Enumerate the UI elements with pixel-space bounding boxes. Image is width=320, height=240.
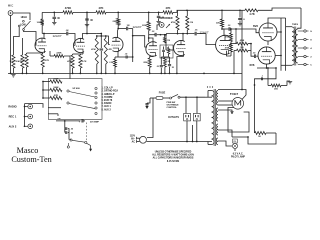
svg-text:4.7K: 4.7K (82, 60, 87, 63)
label MIC input (8, 4, 14, 8)
ground arrow line cap (145, 106, 148, 109)
label pilot lamp (231, 153, 245, 159)
wire V1A plate to coupling node (42, 33, 66, 39)
wire volume wiper feed (69, 73, 71, 78)
label R17 (171, 21, 176, 24)
tube V1A 12AX7 section (35, 38, 46, 52)
wire V2A cathode to R9 R10 (73, 52, 83, 55)
resistor R19a cathode V3A (148, 56, 153, 74)
label R7 (249, 12, 255, 16)
control panel box (48, 79, 102, 120)
wire cathodes join (257, 41, 276, 69)
label R4 (65, 6, 71, 10)
capacitor C2a filter 40 (53, 12, 57, 22)
svg-text:1M: 1M (190, 22, 193, 24)
capacitor C10 .02 coupling (154, 33, 161, 37)
wire triple to V2B grid (106, 36, 110, 45)
resistor R8 470K grid (50, 55, 64, 58)
wire interstage top bus (96, 33, 107, 37)
svg-text:220K: 220K (56, 52, 62, 54)
svg-text:6.3 V A.C.: 6.3 V A.C. (233, 153, 244, 156)
label R21a (225, 36, 230, 39)
wire rail into R7 (240, 9, 245, 11)
tube V2B 12AX7 (112, 37, 123, 51)
wire mic jack down (10, 15, 12, 73)
wire HV CT ground (218, 110, 233, 114)
wire V4 grid (201, 34, 216, 45)
svg-text:Fil.: Fil. (234, 141, 237, 143)
resistor R21a grid leak upper (230, 28, 233, 43)
svg-text:AC: AC (132, 140, 136, 143)
wire R9 R10 to gnd (72, 68, 82, 74)
label HIGH (21, 16, 27, 19)
wire V3B cathode (161, 56, 183, 74)
svg-text:60~: 60~ (131, 138, 136, 140)
label R3a (37, 22, 42, 24)
svg-text:100K: 100K (53, 79, 59, 81)
capacitor C16 line (145, 103, 148, 107)
resistor R11b interstage (104, 36, 107, 73)
svg-text:220K: 220K (143, 62, 148, 64)
svg-text:2.2K: 2.2K (109, 62, 114, 64)
B+ rail segment E to OT (258, 8, 301, 10)
transformer T1 winding4 (216, 138, 218, 145)
svg-text:470K: 470K (171, 21, 176, 24)
wire V1A cathode (43, 52, 45, 53)
svg-text:PILOT LAMP: PILOT LAMP (231, 156, 245, 159)
svg-text:2. ORTHO-RCA: 2. ORTHO-RCA (102, 90, 119, 93)
tube V2A 12AX7 second stage (73, 38, 84, 52)
wire B+ to OT (298, 8, 301, 29)
wire cathode to bypass top (27, 53, 43, 54)
wire coupling down to volume (132, 29, 134, 63)
svg-text:2.2K: 2.2K (166, 61, 171, 63)
wire switch to grid (24, 31, 37, 46)
wire pilot down (234, 149, 236, 151)
transformer T1 heater dots (207, 86, 213, 87)
speaker field loop (248, 133, 276, 144)
wire tail to gnd (233, 51, 235, 75)
svg-text:.1: .1 (261, 76, 263, 78)
capacitor C18 tone (162, 47, 165, 57)
tube V6 6V6 lower (258, 47, 275, 64)
transformer T1 heater winding (217, 124, 218, 135)
plate bus vertical (280, 18, 282, 71)
record arrow (166, 24, 170, 28)
wire to tone pots (161, 34, 167, 36)
switch S2 input selector (67, 87, 97, 114)
svg-text:180K: 180K (53, 87, 59, 89)
label C2a (57, 17, 60, 20)
label R21b (225, 47, 230, 50)
ground rail bottom left (8, 72, 107, 74)
capacitor C8 .02 (65, 129, 73, 135)
wire R8 to volume pot (64, 56, 70, 73)
label C10 (152, 31, 156, 33)
label C15 (253, 53, 257, 55)
ground symbol left (11, 75, 15, 77)
label 6V6 lower (250, 63, 255, 67)
B+ rail segment D (173, 9, 241, 12)
resistor R18 1MEG (186, 10, 189, 33)
wire V3B grid (166, 35, 174, 50)
svg-text:LOW: LOW (20, 23, 26, 26)
wire tone caps to S3 (68, 129, 69, 140)
svg-text:470K: 470K (91, 48, 96, 51)
svg-text:G: G (310, 31, 312, 33)
wire V6 screen stub (267, 47, 286, 52)
wire selector feeds (43, 108, 61, 116)
jack input RADIO (8, 104, 32, 109)
ac plug (137, 136, 147, 143)
svg-text:115V: 115V (130, 135, 136, 137)
ac line upper (147, 98, 153, 138)
capacitor C13 8MF (238, 10, 242, 26)
capacitor C1 bypass (25, 54, 28, 67)
svg-text:.05: .05 (70, 129, 73, 131)
tube V7 5Y3GT (232, 98, 244, 110)
svg-text:3. AMER-LP: 3. AMER-LP (102, 93, 115, 96)
label R24 (274, 89, 278, 91)
svg-text:470K: 470K (225, 47, 230, 50)
label ac (130, 135, 136, 143)
wire mixer left bus (42, 81, 44, 99)
svg-text:OUTLETS: OUTLETS (168, 117, 179, 119)
label C5 (114, 54, 133, 75)
svg-text:8-15-52 WE: 8-15-52 WE (167, 161, 180, 163)
label C12b (157, 66, 159, 68)
label R26 (167, 40, 170, 42)
jack input REC 1 (9, 114, 33, 119)
wire bottom bus (232, 136, 255, 138)
svg-text:5. EUR 78: 5. EUR 78 (102, 100, 113, 102)
label R13 (53, 79, 59, 81)
title Masco (17, 146, 39, 155)
label R15 (54, 95, 58, 97)
svg-text:4.7K: 4.7K (44, 59, 49, 62)
svg-text:100K: 100K (37, 22, 42, 24)
tube V3A 12AX7 (146, 42, 158, 56)
label R5 (99, 6, 104, 10)
svg-text:470K: 470K (225, 36, 230, 39)
capacitor C5b coupling 1M (118, 27, 133, 31)
label R11 C4 (91, 48, 112, 51)
resistor R19b (164, 57, 167, 73)
transformer T1 HV secondary (217, 91, 218, 106)
transformer T1 secondary2 (216, 108, 218, 121)
svg-text:470 MMF: 470 MMF (90, 120, 100, 123)
wire heater top link (218, 89, 242, 91)
resistor R22 tail upper (231, 42, 251, 45)
resistor R13 mixer 100K (43, 80, 62, 83)
resistor R9 cathode V2A (71, 55, 74, 68)
label C1 (23, 60, 26, 62)
wire tone bus bottom (56, 117, 81, 121)
capacitor C14 coupling upper (222, 27, 260, 43)
svg-text:6. RADIO: 6. RADIO (102, 102, 112, 105)
switch S3 treble contacts (67, 139, 87, 148)
svg-text:Custom-Ten: Custom-Ten (11, 155, 51, 164)
label R1 value (9, 61, 17, 63)
svg-text:FUSE: FUSE (159, 92, 166, 95)
resistor R14 180K (43, 88, 62, 91)
svg-text:TWF6: TWF6 (292, 24, 299, 26)
svg-text:22K: 22K (216, 23, 220, 25)
B+ rail segment B (73, 12, 96, 14)
tube V3B 12AX7 (174, 41, 186, 56)
label outlets (168, 117, 179, 119)
wire cathode bus down (268, 68, 292, 86)
svg-text:4. 78 RPM: 4. 78 RPM (102, 96, 113, 99)
wire grid return (49, 51, 51, 56)
jack input AUX 2 (9, 124, 33, 129)
resistor R4 220K plate V1A (63, 11, 73, 14)
label C13 (243, 19, 245, 21)
transformer T2 core (294, 27, 296, 66)
screen bus vertical (285, 18, 287, 71)
label R8 (56, 52, 62, 54)
outlet 2 (193, 113, 200, 121)
wire V2A grid (73, 45, 76, 47)
svg-text:1M: 1M (127, 25, 130, 27)
wire V2A plate up (83, 34, 88, 40)
svg-text:1M: 1M (167, 40, 170, 42)
capacitor C2 filter 40 (85, 12, 89, 24)
wire V4 cathode (227, 43, 232, 56)
svg-text:.02: .02 (70, 133, 73, 135)
resistor R5 47K decoupling (96, 11, 106, 14)
svg-text:SP 608: SP 608 (72, 88, 80, 90)
svg-text:25: 25 (172, 67, 174, 69)
jack J1 MIC (8, 11, 13, 16)
label C14 (228, 25, 232, 27)
wire B+ down right (254, 85, 256, 133)
svg-text:MIC: MIC (8, 4, 14, 8)
resistor R26 1M divider (164, 34, 166, 43)
label R2 value (18, 60, 22, 63)
label selector (72, 88, 80, 90)
svg-text:UNLESS OTHERWISE SPECIFIED: UNLESS OTHERWISE SPECIFIED (155, 152, 192, 154)
switch S1 high/low contacts (18, 20, 30, 30)
label R18 (190, 22, 193, 24)
capacitor C6 470MMF (79, 119, 100, 123)
svg-text:470K: 470K (65, 6, 71, 10)
legend selector positions (102, 88, 119, 112)
ground rail center (107, 73, 242, 75)
label LOW (20, 23, 26, 26)
wire fuse left (147, 98, 150, 103)
label C11 (195, 30, 199, 32)
label 12AX7 inverter (199, 31, 208, 35)
label R14 (53, 87, 59, 89)
ground symbol C2a (52, 22, 56, 24)
title Custom-Ten (11, 155, 51, 164)
tube V5 6V6 upper (259, 23, 277, 41)
wire V3B plate up (182, 33, 184, 41)
capacitor C15 coupling lower (250, 43, 258, 58)
wire 5Y3 filament loop (228, 108, 249, 133)
svg-text:6V6: 6V6 (253, 24, 258, 28)
wire mic jack to grid switch (13, 13, 30, 20)
svg-text:ALL CAPACITORS IN MICROFARADS: ALL CAPACITORS IN MICROFARADS (153, 157, 194, 160)
resistor R6 47K decoupling2 (163, 11, 173, 14)
label C12c (172, 67, 174, 69)
label 12AX7 first (52, 34, 61, 38)
label 12AX7 third (132, 25, 141, 29)
resistor R1 3.3MEG grid (12, 55, 15, 68)
capacitor C7 .05 (65, 121, 73, 131)
switch S2 wipers (69, 92, 95, 109)
svg-text:47K: 47K (166, 6, 171, 10)
capacitor C12b bypass (160, 57, 163, 73)
capacitor C12c bypass2 (168, 57, 171, 73)
label R20 (216, 23, 220, 25)
gang dashed link (85, 123, 87, 142)
resistor R3 cathode V1A (41, 53, 44, 67)
svg-text:REC 1: REC 1 (9, 115, 17, 119)
resistor R20 22K plate (220, 10, 223, 29)
pilot lamp (232, 139, 237, 149)
resistor R16 220K plate (147, 12, 150, 42)
svg-text:05: 05 (157, 66, 159, 68)
transformer T1 core (214, 89, 216, 146)
wire cathode bottoms to gnd (26, 67, 44, 74)
label R6 (166, 6, 171, 10)
wire OT primary top lead (286, 26, 292, 28)
notes text (152, 152, 194, 163)
svg-text:HIGH: HIGH (21, 16, 27, 19)
outlet wires (185, 96, 198, 141)
wire nfb (254, 67, 277, 86)
resistor R7 470 screen dropper (245, 9, 258, 12)
wire V6 plate stub (275, 55, 282, 57)
wire screen bus top (268, 18, 286, 23)
svg-text:47K: 47K (99, 6, 104, 10)
label power switch (167, 102, 180, 109)
resistor R17 470K (176, 10, 179, 33)
wire jack bus to selector (25, 104, 44, 108)
wire record jack (149, 25, 160, 35)
transformer T2 primary (292, 27, 294, 65)
outlet 1 (184, 113, 191, 121)
svg-text:240: 240 (57, 117, 60, 120)
ac line lower (146, 141, 212, 143)
transformer T2 output label (292, 24, 299, 26)
speaker taps (298, 30, 313, 67)
svg-text:.02: .02 (125, 54, 128, 56)
svg-text:1. COL-LP: 1. COL-LP (102, 88, 114, 90)
label 6V6 upper (253, 24, 258, 28)
wire tone bus (166, 33, 193, 35)
resistor R25 50 field (255, 132, 277, 135)
jack J5 RECORDER (159, 18, 173, 27)
resistor R27 tone (167, 47, 169, 57)
resistor R12b plate load V2B (117, 12, 120, 30)
label C9 (162, 17, 165, 19)
label R19a (143, 62, 148, 64)
svg-text:5Y3GT: 5Y3GT (230, 92, 239, 96)
resistor R24 cathode 250 (268, 84, 287, 87)
tone box (160, 45, 173, 58)
label R12b (113, 21, 118, 23)
label R19b (166, 61, 171, 63)
wire R1 bottom to ground rail (12, 68, 14, 73)
wire OT primary bottom lead (281, 64, 292, 66)
resistor R21b grid leak lower (230, 44, 233, 56)
wire V5 plate stub (277, 31, 282, 33)
wire V2A plate to rail dot (86, 12, 97, 34)
resistor R10 (79, 55, 82, 68)
label R9 (67, 60, 72, 63)
label R10 (82, 60, 87, 63)
svg-text:RADIO: RADIO (8, 105, 16, 109)
wire V3A plate (148, 37, 153, 42)
label R3 (44, 59, 49, 62)
capacitor C9 20MF (156, 12, 160, 24)
label R16 (142, 25, 147, 27)
svg-text:12AX7: 12AX7 (52, 34, 61, 38)
wire HV tap 2 (218, 104, 232, 106)
transformer T1 primary (208, 91, 214, 145)
svg-text:12AX7: 12AX7 (132, 25, 141, 29)
label C5b (127, 25, 130, 27)
svg-text:Masco: Masco (17, 146, 39, 155)
svg-text:AUX 2: AUX 2 (9, 124, 17, 128)
svg-text:470K: 470K (67, 60, 72, 63)
transformer T2 secondary (295, 29, 298, 63)
wire heater to pilot (218, 130, 232, 146)
label R12 (109, 62, 114, 64)
label R22 (240, 39, 245, 42)
svg-text:7. AUX 1: 7. AUX 1 (102, 105, 112, 108)
wire low tap to divider (13, 27, 19, 55)
svg-text:RECORDER: RECORDER (159, 18, 172, 20)
B+ rail segment A (42, 12, 63, 14)
wire HV top to 5Y3 plate (218, 100, 232, 102)
svg-text:4.7K: 4.7K (249, 12, 255, 16)
tube V4 12AX7 phase inverter (216, 35, 231, 54)
label 5Y3GT (230, 92, 239, 96)
capacitor C3a coupling .02 (67, 32, 75, 46)
svg-text:220K: 220K (142, 25, 147, 27)
label R23 (240, 47, 243, 49)
resistor R12 cathode V2B (114, 57, 117, 73)
capacitor C17 nfb (261, 76, 263, 81)
wire jack bus (24, 104, 26, 127)
ground symbol C2 (85, 25, 89, 27)
label C2 (90, 19, 93, 22)
resistor R2 47K divider (21, 38, 24, 73)
capacitor C11 .05 (193, 32, 201, 36)
wire interstage bottom dots (96, 73, 107, 75)
wire V2B plate up to plate node (117, 29, 120, 39)
svg-text:27K: 27K (54, 95, 58, 97)
dot gnd j1 (10, 73, 24, 75)
ground arrow tone (87, 143, 93, 151)
fuse F1 (150, 92, 169, 100)
switch S4 power (170, 94, 213, 99)
capacitor C5 out V2B (115, 51, 133, 59)
svg-text:220K: 220K (113, 21, 118, 23)
svg-text:6V6: 6V6 (250, 63, 255, 67)
label R25 (258, 136, 261, 138)
wire V4 plate (221, 28, 224, 36)
svg-text:8. AUX 2: 8. AUX 2 (102, 108, 112, 111)
resistor R15 27K (43, 96, 62, 99)
capacitor C4 interstage (100, 36, 104, 73)
svg-text:CONTROL: CONTROL (167, 107, 178, 109)
resistor R3a plate load 100K (41, 12, 44, 33)
